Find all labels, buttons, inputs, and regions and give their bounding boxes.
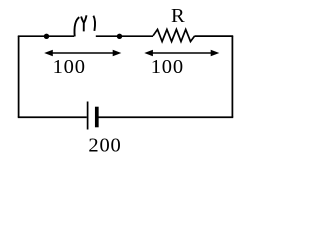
battery cell: long thin plate (positive): [87, 102, 89, 130]
node A (left junction dot): [44, 34, 49, 39]
component Y: letter Y glyph: [81, 15, 86, 31]
component Y: right arc ")": [93, 16, 95, 31]
wire: top-left segment from corner to component gap: [18, 35, 74, 37]
svg-text:200: 200: [88, 134, 121, 156]
resistor R zigzag: [153, 29, 195, 41]
wire: top-middle segment from component gap to resistor: [96, 35, 153, 37]
svg-text:R: R: [171, 5, 185, 27]
wire: right vertical side of loop: [231, 36, 233, 117]
component Y: left upturned wire arc "(": [74, 17, 79, 36]
node B (right junction dot): [117, 34, 122, 39]
battery cell: short thick plate (negative): [95, 107, 99, 128]
dimension arrow under resistor R: [144, 50, 219, 57]
wire: bottom-left segment from corner to battery: [18, 116, 87, 118]
wire: bottom-right segment from battery to corner: [99, 116, 234, 118]
svg-text:100: 100: [53, 56, 86, 78]
dimension arrow under Y component: [44, 50, 121, 57]
wire: top-right segment from resistor to corner: [195, 35, 234, 37]
svg-text:100: 100: [151, 56, 184, 78]
wire: left vertical side of loop: [18, 36, 20, 117]
